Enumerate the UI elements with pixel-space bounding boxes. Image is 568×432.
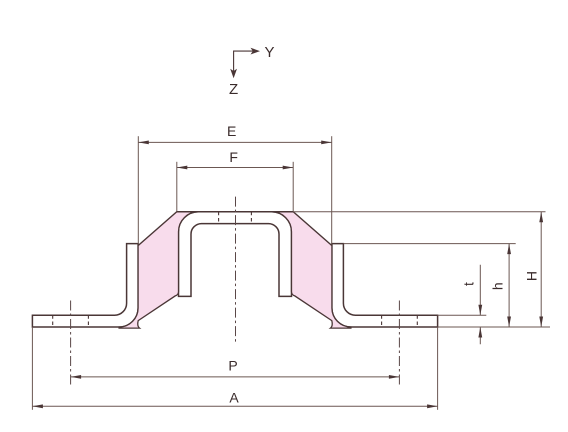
svg-text:A: A (229, 390, 239, 406)
top surface line (object) (177, 211, 293, 213)
bottom extension line (438, 326, 550, 328)
axis indicator Y/Z (229, 44, 274, 98)
svg-text:F: F (229, 149, 238, 165)
main centerline (235, 197, 237, 344)
hidden hole in hat top (dashed) (219, 212, 252, 224)
right foot bracket (sheet metal) (332, 244, 438, 327)
dimension E (138, 136, 331, 244)
dimension P (71, 376, 400, 378)
t extension line from plate top (438, 314, 487, 316)
h extension line from wall top (343, 243, 515, 245)
dimension A (32, 327, 437, 410)
hat-section metal insert (179, 212, 292, 297)
H extension line from top surface (293, 211, 545, 213)
svg-text:h: h (490, 282, 506, 290)
dimension F (177, 162, 293, 211)
svg-text:t: t (461, 282, 477, 286)
svg-text:P: P (228, 357, 237, 373)
svg-text:H: H (523, 271, 539, 281)
dimension t (outside arrows) (479, 265, 481, 344)
svg-text:E: E (227, 123, 236, 139)
dimension H (540, 212, 542, 327)
dimension h (508, 244, 510, 327)
rubber wedge right (pink) (272, 212, 351, 328)
hidden bolt hole left foot (dashed) (53, 315, 89, 327)
right bolt centerline (398, 301, 400, 386)
hidden bolt hole right foot (dashed) (382, 315, 418, 327)
left foot bracket (sheet metal) (32, 244, 138, 327)
left bolt centerline (70, 301, 72, 386)
svg-text:Y: Y (264, 44, 274, 61)
svg-text:Z: Z (229, 81, 238, 98)
rubber wedge left (pink) (119, 212, 198, 328)
